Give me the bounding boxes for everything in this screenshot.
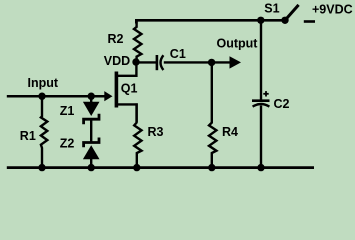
svg-text:Output: Output xyxy=(217,37,259,51)
svg-text:R4: R4 xyxy=(222,125,238,139)
transistor Q1: source lead xyxy=(118,104,137,122)
capacitor C2 (electrolytic) top plate xyxy=(252,99,270,102)
resistor R2 xyxy=(134,20,141,62)
svg-text:Input: Input xyxy=(28,76,59,90)
zener diode Z2 (cathode up) xyxy=(84,138,99,148)
node dot: input/R1 junction xyxy=(38,93,45,100)
node dot: rail/C2 xyxy=(257,164,264,171)
svg-text:Q1: Q1 xyxy=(121,82,138,96)
wire: Z1-Z2 middle lead xyxy=(90,119,92,142)
svg-text:VDD: VDD xyxy=(104,54,130,68)
svg-text:+9VDC: +9VDC xyxy=(312,3,353,17)
resistor R1 xyxy=(41,96,47,168)
transistor Q1 (JFET): gate arrow xyxy=(104,91,112,101)
transistor Q1: channel bar xyxy=(115,72,119,108)
wire: input rail y=95.6 from left edge to Q1 gate arrow xyxy=(7,95,106,98)
wire: C2 to ground rail xyxy=(260,106,262,169)
wire: output node to arrow xyxy=(212,61,230,63)
node dot: rail/Z2 xyxy=(88,164,95,171)
svg-text:Z2: Z2 xyxy=(60,137,75,151)
transistor Q1: drain lead xyxy=(118,62,136,76)
switch S1 throw contact dash xyxy=(304,20,315,23)
svg-text:R3: R3 xyxy=(148,125,164,139)
zener diode Z1 (cathode down) xyxy=(90,96,92,103)
wire: top rail from R2 corner to switch pole xyxy=(136,20,285,23)
capacitor C1 xyxy=(156,55,159,70)
svg-text:C2: C2 xyxy=(274,97,290,111)
output arrow xyxy=(230,56,242,68)
svg-text:C1: C1 xyxy=(170,47,186,61)
node dot: rail/R1 xyxy=(38,164,45,171)
resistor R4 xyxy=(209,62,216,168)
switch S1 lever xyxy=(285,5,299,20)
node dot: top wire / C2 branch xyxy=(257,17,264,24)
wire: ground rail xyxy=(7,166,314,169)
node VDD dot xyxy=(132,58,139,65)
svg-text:R2: R2 xyxy=(108,32,124,46)
svg-text:S1: S1 xyxy=(264,2,279,16)
svg-text:Z1: Z1 xyxy=(60,104,75,118)
node dot: output junction xyxy=(208,59,215,66)
node dot: rail/R4 xyxy=(208,164,215,171)
resistor R3 xyxy=(134,103,141,168)
node dot: rail/R3 xyxy=(133,164,140,171)
switch S1 pole dot xyxy=(281,17,288,24)
wire: VDD to C1 xyxy=(136,61,157,63)
C2 bottom plate (curved) xyxy=(253,104,270,107)
wire: C2 branch down xyxy=(260,20,262,99)
wire: C1 to output node xyxy=(164,61,212,63)
node dot: input/Z1 junction xyxy=(88,93,95,100)
svg-text:R1: R1 xyxy=(20,129,36,143)
C2 plus sign xyxy=(263,93,268,95)
